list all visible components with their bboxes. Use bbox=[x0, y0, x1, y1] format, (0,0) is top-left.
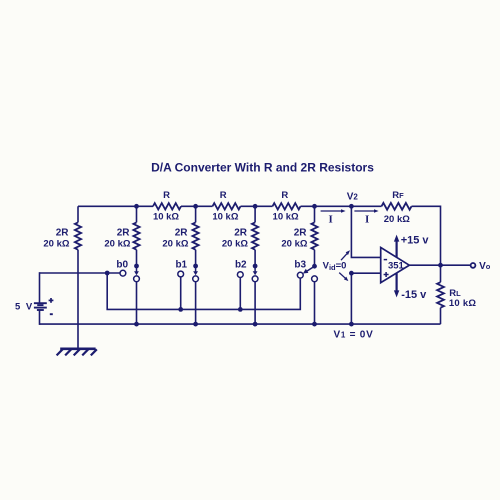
svg-text:2R: 2R bbox=[175, 227, 189, 238]
svg-text:10 kΩ: 10 kΩ bbox=[449, 298, 476, 309]
svg-text:V2: V2 bbox=[347, 191, 359, 202]
svg-text:R: R bbox=[163, 190, 170, 201]
svg-text:2R: 2R bbox=[234, 227, 248, 238]
svg-text:20 kΩ: 20 kΩ bbox=[384, 214, 410, 225]
svg-text:R: R bbox=[281, 190, 288, 201]
svg-text:20 kΩ: 20 kΩ bbox=[104, 238, 130, 249]
svg-text:10 kΩ: 10 kΩ bbox=[153, 211, 179, 222]
svg-text:351: 351 bbox=[388, 261, 405, 272]
svg-text:I: I bbox=[329, 213, 333, 225]
svg-text:b1: b1 bbox=[175, 259, 187, 270]
svg-text:20 kΩ: 20 kΩ bbox=[222, 238, 248, 249]
svg-text:2R: 2R bbox=[117, 227, 131, 238]
svg-text:20 kΩ: 20 kΩ bbox=[43, 238, 69, 249]
svg-text:V1 = 0V: V1 = 0V bbox=[334, 330, 374, 341]
svg-text:b2: b2 bbox=[235, 259, 247, 270]
svg-text:10 kΩ: 10 kΩ bbox=[273, 211, 299, 222]
svg-text:2R: 2R bbox=[294, 227, 308, 238]
svg-text:b0: b0 bbox=[116, 259, 128, 270]
svg-text:Vid=0: Vid=0 bbox=[323, 261, 347, 272]
svg-text:2R: 2R bbox=[56, 227, 70, 238]
svg-text:20 kΩ: 20 kΩ bbox=[162, 238, 188, 249]
svg-text:-15 v: -15 v bbox=[401, 289, 427, 301]
svg-text:D/A Converter With R and 2R Re: D/A Converter With R and 2R Resistors bbox=[151, 161, 374, 175]
svg-text:Vo: Vo bbox=[479, 261, 491, 272]
svg-text:+15 v: +15 v bbox=[401, 234, 430, 246]
svg-text:5 V: 5 V bbox=[15, 302, 34, 313]
svg-text:b3: b3 bbox=[294, 259, 306, 270]
svg-text:I: I bbox=[365, 213, 369, 225]
svg-text:R: R bbox=[220, 190, 227, 201]
svg-text:RF: RF bbox=[392, 190, 404, 201]
svg-text:10 kΩ: 10 kΩ bbox=[212, 211, 238, 222]
svg-text:20 kΩ: 20 kΩ bbox=[281, 238, 307, 249]
